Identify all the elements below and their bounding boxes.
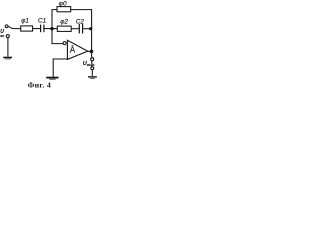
terminal output top (91, 58, 94, 61)
ground center (46, 77, 58, 79)
terminal input top (5, 25, 8, 28)
svg-text:φ0: φ0 (59, 1, 67, 8)
ground right (88, 76, 97, 78)
wire op-amp output (88, 50, 92, 52)
wire to ground right (91, 70, 93, 76)
capacitor C1 (40, 25, 42, 33)
svg-text:Ā: Ā (70, 46, 76, 55)
wire C2 to right vertical (83, 28, 91, 30)
wire node A down to inverting input (52, 29, 64, 44)
ground left (3, 56, 12, 58)
svg-text:φ2: φ2 (60, 19, 68, 26)
output node junction (90, 50, 94, 54)
wire C1 to node A (44, 28, 57, 30)
svg-text:вх: вх (0, 34, 4, 38)
resistor F2 (57, 26, 71, 31)
node A junction (50, 27, 53, 30)
svg-text:φ1: φ1 (21, 17, 29, 24)
wire non-inverting input (53, 59, 67, 77)
node B junction (89, 27, 92, 30)
capacitor C2 (78, 24, 80, 34)
terminal input bottom (6, 35, 9, 38)
wire input to R1 (8, 26, 21, 28)
resistor F1 (21, 26, 33, 31)
resistor F0 (57, 7, 71, 12)
inverting input bubble (63, 42, 66, 45)
svg-text:Фиг. 4: Фиг. 4 (28, 81, 51, 90)
wire R2 to C2 (71, 28, 79, 30)
wire to ground left (7, 38, 9, 57)
wire node A up and top branch to right vertical (52, 10, 92, 58)
op-amp U1 triangle (67, 40, 87, 59)
wire between output terminals (91, 61, 93, 67)
svg-text:Uвых: Uвых (83, 61, 96, 67)
svg-text:C2: C2 (76, 18, 85, 25)
svg-text:C1: C1 (38, 18, 47, 25)
wire R1 to C1 (33, 28, 41, 30)
terminal output bottom (91, 67, 94, 70)
